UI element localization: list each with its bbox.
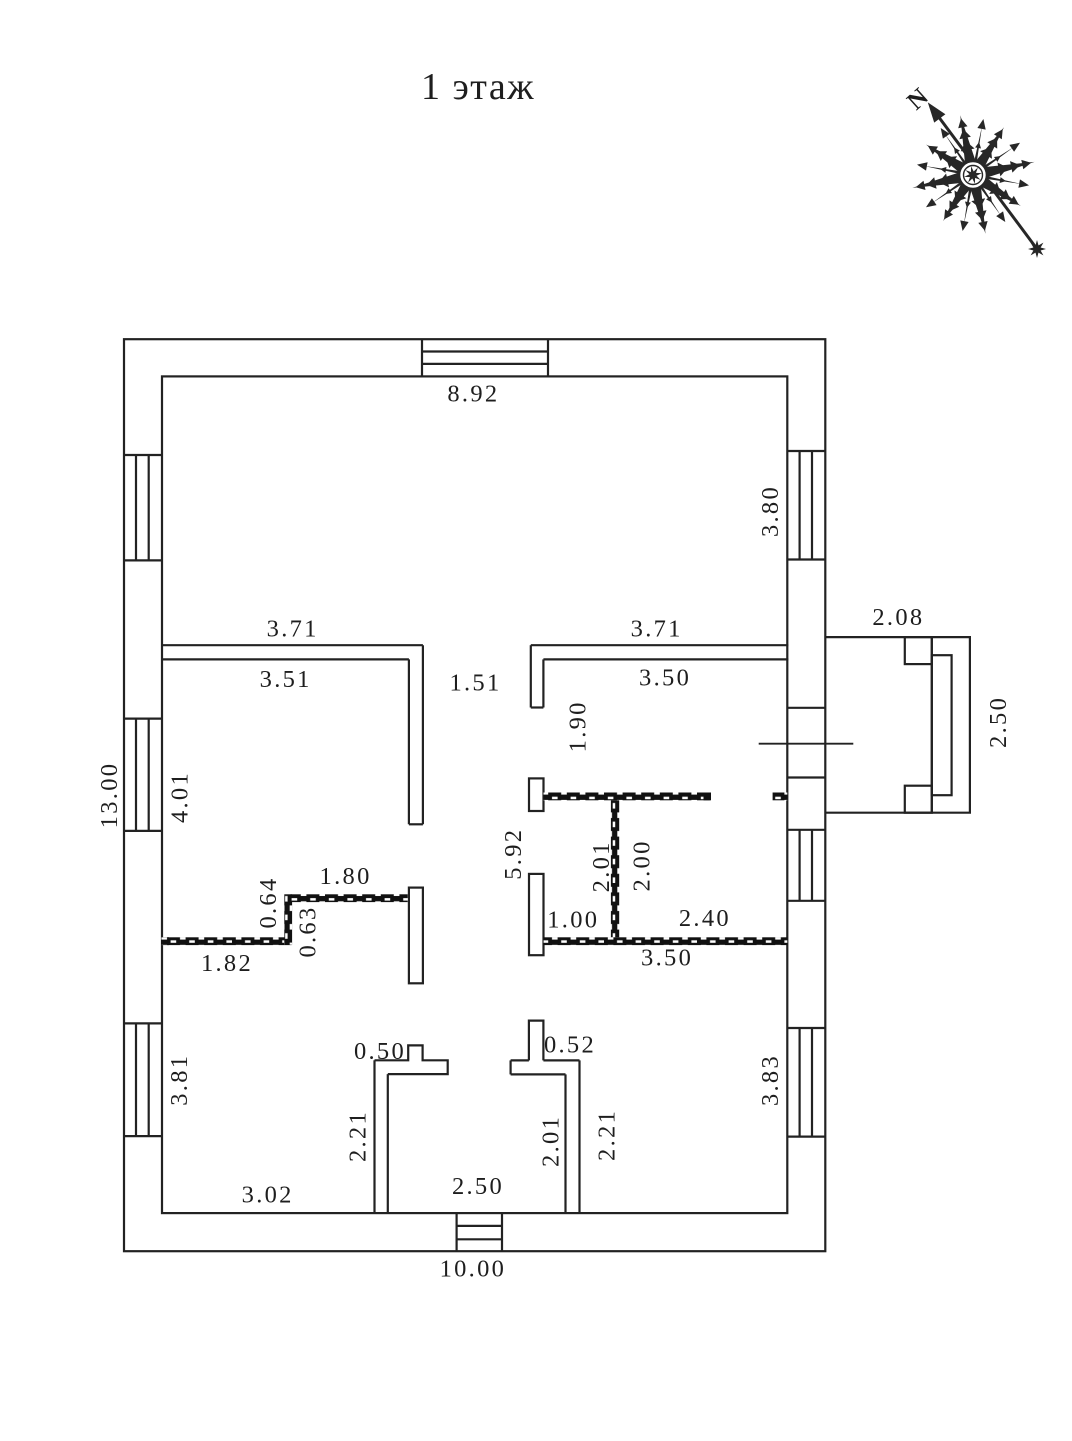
compass rose	[902, 83, 1046, 258]
partition B top-right room	[531, 645, 789, 707]
svg-text:1.80: 1.80	[320, 863, 372, 890]
svg-text:10.00: 10.00	[440, 1255, 507, 1282]
compass arrowhead	[928, 102, 946, 122]
hatched wall H3 bottom of bath	[544, 937, 788, 945]
svg-text:1.51: 1.51	[449, 669, 501, 696]
window W3 left (bottom)	[124, 1023, 162, 1136]
svg-text:1.00: 1.00	[547, 907, 599, 934]
svg-text:3.50: 3.50	[641, 944, 693, 971]
svg-text:3.71: 3.71	[267, 615, 319, 642]
compass main arrow shaft	[935, 112, 1037, 249]
window W7 right (bottom)	[787, 1028, 825, 1137]
svg-text:3.81: 3.81	[166, 1054, 193, 1106]
hatched wall H1 top of bath	[544, 793, 712, 801]
bottom partition left (L-wall with notch)	[375, 1045, 448, 1213]
svg-text:0.50: 0.50	[354, 1038, 406, 1065]
svg-text:3.83: 3.83	[757, 1054, 784, 1106]
compass thin ray 6	[945, 134, 971, 171]
compass thick ray 2	[975, 173, 1021, 206]
compass thick ray 5	[912, 170, 968, 188]
svg-text:2.50: 2.50	[452, 1173, 504, 1200]
svg-text:3.02: 3.02	[242, 1181, 294, 1208]
svg-text:3.51: 3.51	[260, 666, 312, 693]
compass thick ray 4	[943, 177, 975, 221]
porch door caps on right wall	[787, 707, 825, 709]
svg-text:3.71: 3.71	[631, 615, 683, 642]
porch door thin line	[759, 743, 854, 745]
svg-text:13.00: 13.00	[96, 762, 123, 829]
svg-text:3.50: 3.50	[639, 664, 691, 691]
svg-text:2.01: 2.01	[537, 1115, 564, 1167]
svg-text:0.63: 0.63	[295, 905, 322, 957]
svg-text:1.90: 1.90	[565, 700, 592, 752]
svg-text:5.92: 5.92	[500, 828, 527, 880]
door jamb bar J3 (left rooms)	[409, 888, 423, 984]
porch step rect	[932, 655, 952, 795]
hatched partition walls	[161, 793, 787, 946]
window W2 left (middle)	[124, 719, 162, 831]
svg-text:1 этаж: 1 этаж	[421, 66, 535, 108]
porch column top	[905, 637, 932, 664]
svg-text:2.00: 2.00	[628, 839, 655, 891]
door jamb bar J2 (hall lower)	[529, 874, 544, 955]
outer wall rectangle	[124, 339, 825, 1251]
svg-text:2.50: 2.50	[985, 696, 1012, 748]
window W1 left (top)	[124, 455, 162, 560]
compass thin ray 5	[924, 166, 968, 176]
svg-text:0.64: 0.64	[255, 876, 282, 928]
svg-text:2.21: 2.21	[345, 1110, 372, 1162]
window W6 right (middle small)	[787, 830, 825, 901]
svg-text:3.80: 3.80	[757, 485, 784, 537]
partition A top-left room	[161, 645, 423, 824]
svg-text:4.01: 4.01	[167, 771, 194, 823]
hatched wall H5 jog vertical	[284, 894, 292, 944]
porch column bottom	[905, 786, 932, 813]
bottom partition right (L-wall with stub)	[511, 1021, 580, 1214]
door jamb bar J1 (hall)	[529, 778, 544, 811]
window W4 top wall	[422, 339, 548, 376]
window W5 right (top)	[787, 451, 825, 560]
hatched wall H4 left lower	[161, 937, 169, 945]
porch outline	[825, 637, 970, 813]
svg-text:2.21: 2.21	[593, 1109, 620, 1161]
compass thin ray 2	[975, 179, 1001, 216]
compass fletching	[1028, 247, 1046, 252]
dimension labels horizontal	[201, 381, 924, 1283]
svg-text:2.01: 2.01	[588, 840, 615, 892]
compass thick ray 8	[971, 127, 1004, 173]
inner wall rectangle	[162, 376, 787, 1213]
svg-text:8.92: 8.92	[447, 381, 499, 408]
svg-text:2.08: 2.08	[872, 604, 924, 631]
hatched wall H1 stub at right wall	[773, 793, 788, 801]
dimension labels vertical	[96, 485, 1012, 1167]
hatched wall H2 vertical bath divider	[611, 800, 619, 937]
svg-text:0.52: 0.52	[544, 1032, 596, 1059]
compass thick ray 3	[968, 180, 985, 234]
compass thin ray 3	[964, 181, 974, 225]
compass thin ray 8	[977, 147, 1014, 173]
window W8 bottom wall (small vent)	[457, 1213, 502, 1251]
compass centre circle	[959, 161, 987, 189]
compass thin ray 7	[973, 126, 983, 170]
hatched wall H6 left upper	[291, 894, 408, 902]
compass thick ray 6	[926, 145, 971, 177]
compass thick ray 7	[960, 115, 978, 170]
svg-text:1.82: 1.82	[201, 950, 253, 977]
svg-text:2.40: 2.40	[679, 905, 731, 932]
compass thick ray 1	[978, 162, 1035, 180]
compass thin ray 1	[979, 175, 1023, 185]
compass thin ray 4	[932, 177, 969, 203]
